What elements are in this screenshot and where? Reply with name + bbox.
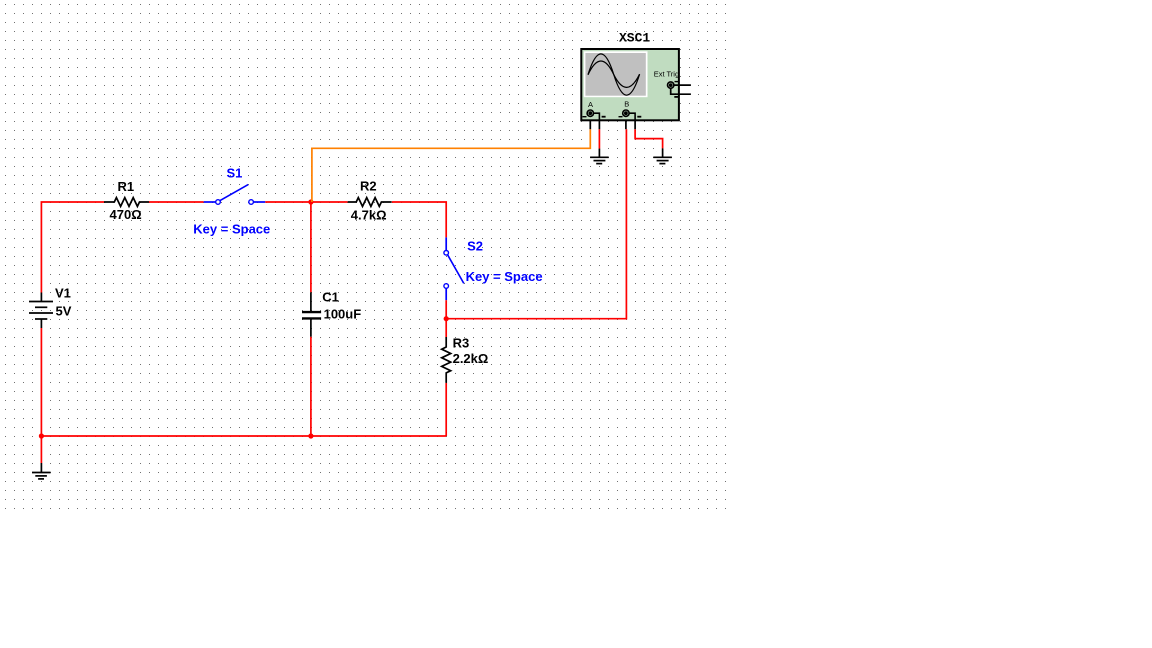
battery V1 [29, 286, 72, 329]
node B junction [444, 316, 449, 321]
wire R1 to S1 [149, 201, 204, 203]
capacitor C1 [302, 290, 361, 337]
oscilloscope XSC1 [581, 31, 691, 130]
ground (scope B) [653, 148, 672, 163]
wire R3 to bottom rail [445, 383, 447, 436]
wire node A to scope channel A (orange) [312, 129, 590, 202]
resistor R2 [348, 179, 392, 223]
svg-text:Key = Space: Key = Space [193, 221, 270, 236]
node V1 bottom junction [39, 433, 44, 438]
svg-text:R3: R3 [453, 336, 470, 351]
wire V1+ to R1 left [41, 202, 104, 293]
wire C1 bottom [310, 337, 312, 436]
wire S1 to node A [265, 201, 311, 203]
svg-text:Ext Trig: Ext Trig [654, 69, 679, 78]
svg-text:R1: R1 [118, 179, 135, 194]
node A junction [308, 199, 313, 204]
switch S1 [193, 166, 270, 237]
svg-text:2.2kΩ: 2.2kΩ [453, 351, 489, 366]
svg-text:B: B [624, 100, 629, 109]
wire V1- down to ground [40, 328, 42, 463]
wire bottom rail [41, 435, 446, 437]
ground (scope A) [590, 149, 609, 164]
svg-text:Key = Space: Key = Space [466, 269, 543, 284]
wire S2 to node B [445, 300, 447, 319]
svg-text:R2: R2 [360, 179, 377, 194]
svg-text:4.7kΩ: 4.7kΩ [351, 208, 387, 223]
terminal A [583, 100, 606, 120]
terminal B [619, 100, 642, 121]
switch S2 [444, 237, 543, 300]
svg-text:S1: S1 [227, 166, 243, 181]
svg-text:V1: V1 [55, 286, 71, 301]
wire node B to scope channel B [446, 129, 626, 319]
wire node B to R3 [445, 319, 447, 337]
svg-text:A: A [588, 100, 593, 109]
wire C1 top [310, 202, 312, 292]
svg-text:5V: 5V [56, 304, 72, 319]
resistor R3 [442, 336, 489, 383]
ground (bottom left) [32, 463, 51, 479]
svg-text:XSC1: XSC1 [619, 31, 650, 46]
wire scope B- to ground [635, 129, 663, 148]
scope pin stubs [590, 120, 635, 129]
wire scope A- to ground [598, 129, 600, 148]
wire R2 to S2 [392, 202, 446, 237]
resistor R1 [104, 179, 149, 222]
svg-text:470Ω: 470Ω [110, 207, 142, 222]
wire node A to R2 [311, 201, 348, 203]
svg-text:100uF: 100uF [324, 307, 362, 322]
node C1 bottom junction [308, 433, 313, 438]
svg-text:S2: S2 [467, 239, 483, 254]
svg-text:C1: C1 [322, 290, 339, 305]
terminal Ext Trig [668, 82, 691, 97]
